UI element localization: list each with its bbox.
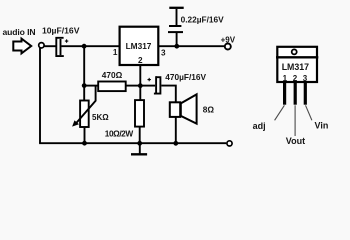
speaker LS1 xyxy=(170,94,197,123)
svg-text:0.22µF/16V: 0.22µF/16V xyxy=(181,15,225,25)
potentiometer VR1 5K body xyxy=(80,101,89,128)
wire: speaker to ground rail xyxy=(175,117,177,143)
resistor R1 470ohm xyxy=(98,82,126,92)
leader line adj xyxy=(275,105,285,120)
svg-text:Vout: Vout xyxy=(286,136,305,146)
terminal +9V xyxy=(225,44,231,50)
wire: pin 2 down xyxy=(139,66,141,86)
svg-text:470Ω: 470Ω xyxy=(102,70,123,80)
wire: pot node to R1 xyxy=(84,85,98,87)
wire: C3 to speaker xyxy=(161,86,176,102)
wire: C1 to pin 1 xyxy=(61,45,119,47)
svg-text:Vin: Vin xyxy=(315,120,329,130)
wire: bottom ground rail xyxy=(39,142,226,144)
input block arrow xyxy=(13,39,31,54)
package mounting hole xyxy=(292,49,297,54)
wire: pin 3 to +9V xyxy=(159,45,225,47)
wire: input ground left vertical xyxy=(39,48,41,143)
transistor package TO-220 outline xyxy=(277,47,317,82)
input jack terminal xyxy=(39,43,44,48)
capacitor C2 0.22uF/16V xyxy=(168,8,184,46)
resistor R2 10ohm/2W xyxy=(135,100,144,127)
package leg 1 xyxy=(283,82,286,105)
node junction pot/ground xyxy=(82,141,87,146)
svg-text:LM317: LM317 xyxy=(282,62,309,72)
svg-text:adj: adj xyxy=(253,121,266,131)
wire: input to C1 xyxy=(44,45,56,47)
svg-text:1: 1 xyxy=(283,74,288,83)
leader line Vin xyxy=(306,105,312,120)
wire: R2 bottom lead xyxy=(139,127,141,144)
svg-text:audio IN: audio IN xyxy=(3,27,36,37)
leader line Vout xyxy=(294,105,296,136)
node junction at pot top xyxy=(82,83,87,88)
wire: pin2 node to C3 xyxy=(140,85,155,87)
node junction pin2/R1/C3 xyxy=(138,83,143,88)
ground symbol xyxy=(131,143,147,154)
wire: pot bottom to ground rail xyxy=(84,128,86,143)
svg-text:3: 3 xyxy=(303,74,308,83)
package tab separator xyxy=(276,56,318,58)
node junction on input wire xyxy=(82,44,87,49)
svg-text:1: 1 xyxy=(113,48,118,57)
svg-text:10Ω/2W: 10Ω/2W xyxy=(105,129,134,139)
wire: R2 top lead xyxy=(139,86,141,100)
node junction C2/output wire xyxy=(174,44,179,49)
capacitor C1 10uF/16V xyxy=(56,38,68,56)
svg-text:10µF/16V: 10µF/16V xyxy=(42,25,80,35)
wire: R1 to pin 2 node xyxy=(126,85,141,87)
node junction speaker/ground rail xyxy=(173,141,178,146)
op-amp U1 LM317 regulator box xyxy=(120,27,159,65)
wire: junction down to volume pot xyxy=(83,46,85,100)
package leg 3 xyxy=(304,82,307,105)
svg-text:2: 2 xyxy=(293,74,298,83)
capacitor C3 470uF/16V xyxy=(148,76,161,93)
node junction R2/ground rail xyxy=(137,141,142,146)
svg-text:+9V: +9V xyxy=(221,35,236,44)
package leg 2 xyxy=(294,82,297,105)
svg-text:8Ω: 8Ω xyxy=(203,104,215,114)
svg-text:5KΩ: 5KΩ xyxy=(92,113,109,122)
svg-text:2: 2 xyxy=(138,56,143,65)
terminal ground return xyxy=(227,141,232,146)
svg-text:LM317: LM317 xyxy=(126,41,152,51)
potentiometer wiper arrow xyxy=(72,86,96,126)
svg-text:470µF/16V: 470µF/16V xyxy=(165,72,206,82)
svg-text:3: 3 xyxy=(161,48,166,57)
